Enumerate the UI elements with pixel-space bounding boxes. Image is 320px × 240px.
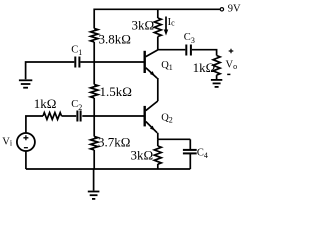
svg-text:Vi: Vi [2,137,13,148]
svg-text:3.7kΩ: 3.7kΩ [98,135,130,150]
svg-text:1kΩ: 1kΩ [193,60,216,75]
svg-text:C1: C1 [71,45,82,58]
svg-text:3kΩ: 3kΩ [132,18,155,33]
svg-text:Q1: Q1 [161,60,173,72]
svg-text:1kΩ: 1kΩ [34,96,57,111]
svg-text:Vo: Vo [226,60,238,71]
svg-text:C4: C4 [197,147,208,160]
svg-text:9V: 9V [228,3,241,14]
svg-text:Ic: Ic [168,17,176,28]
svg-text:1.5kΩ: 1.5kΩ [100,84,132,99]
svg-text:3.8kΩ: 3.8kΩ [99,31,131,46]
svg-text:C2: C2 [71,99,82,112]
svg-text:3kΩ: 3kΩ [131,148,154,163]
svg-text:C3: C3 [184,32,195,45]
svg-text:Q2: Q2 [161,113,173,125]
